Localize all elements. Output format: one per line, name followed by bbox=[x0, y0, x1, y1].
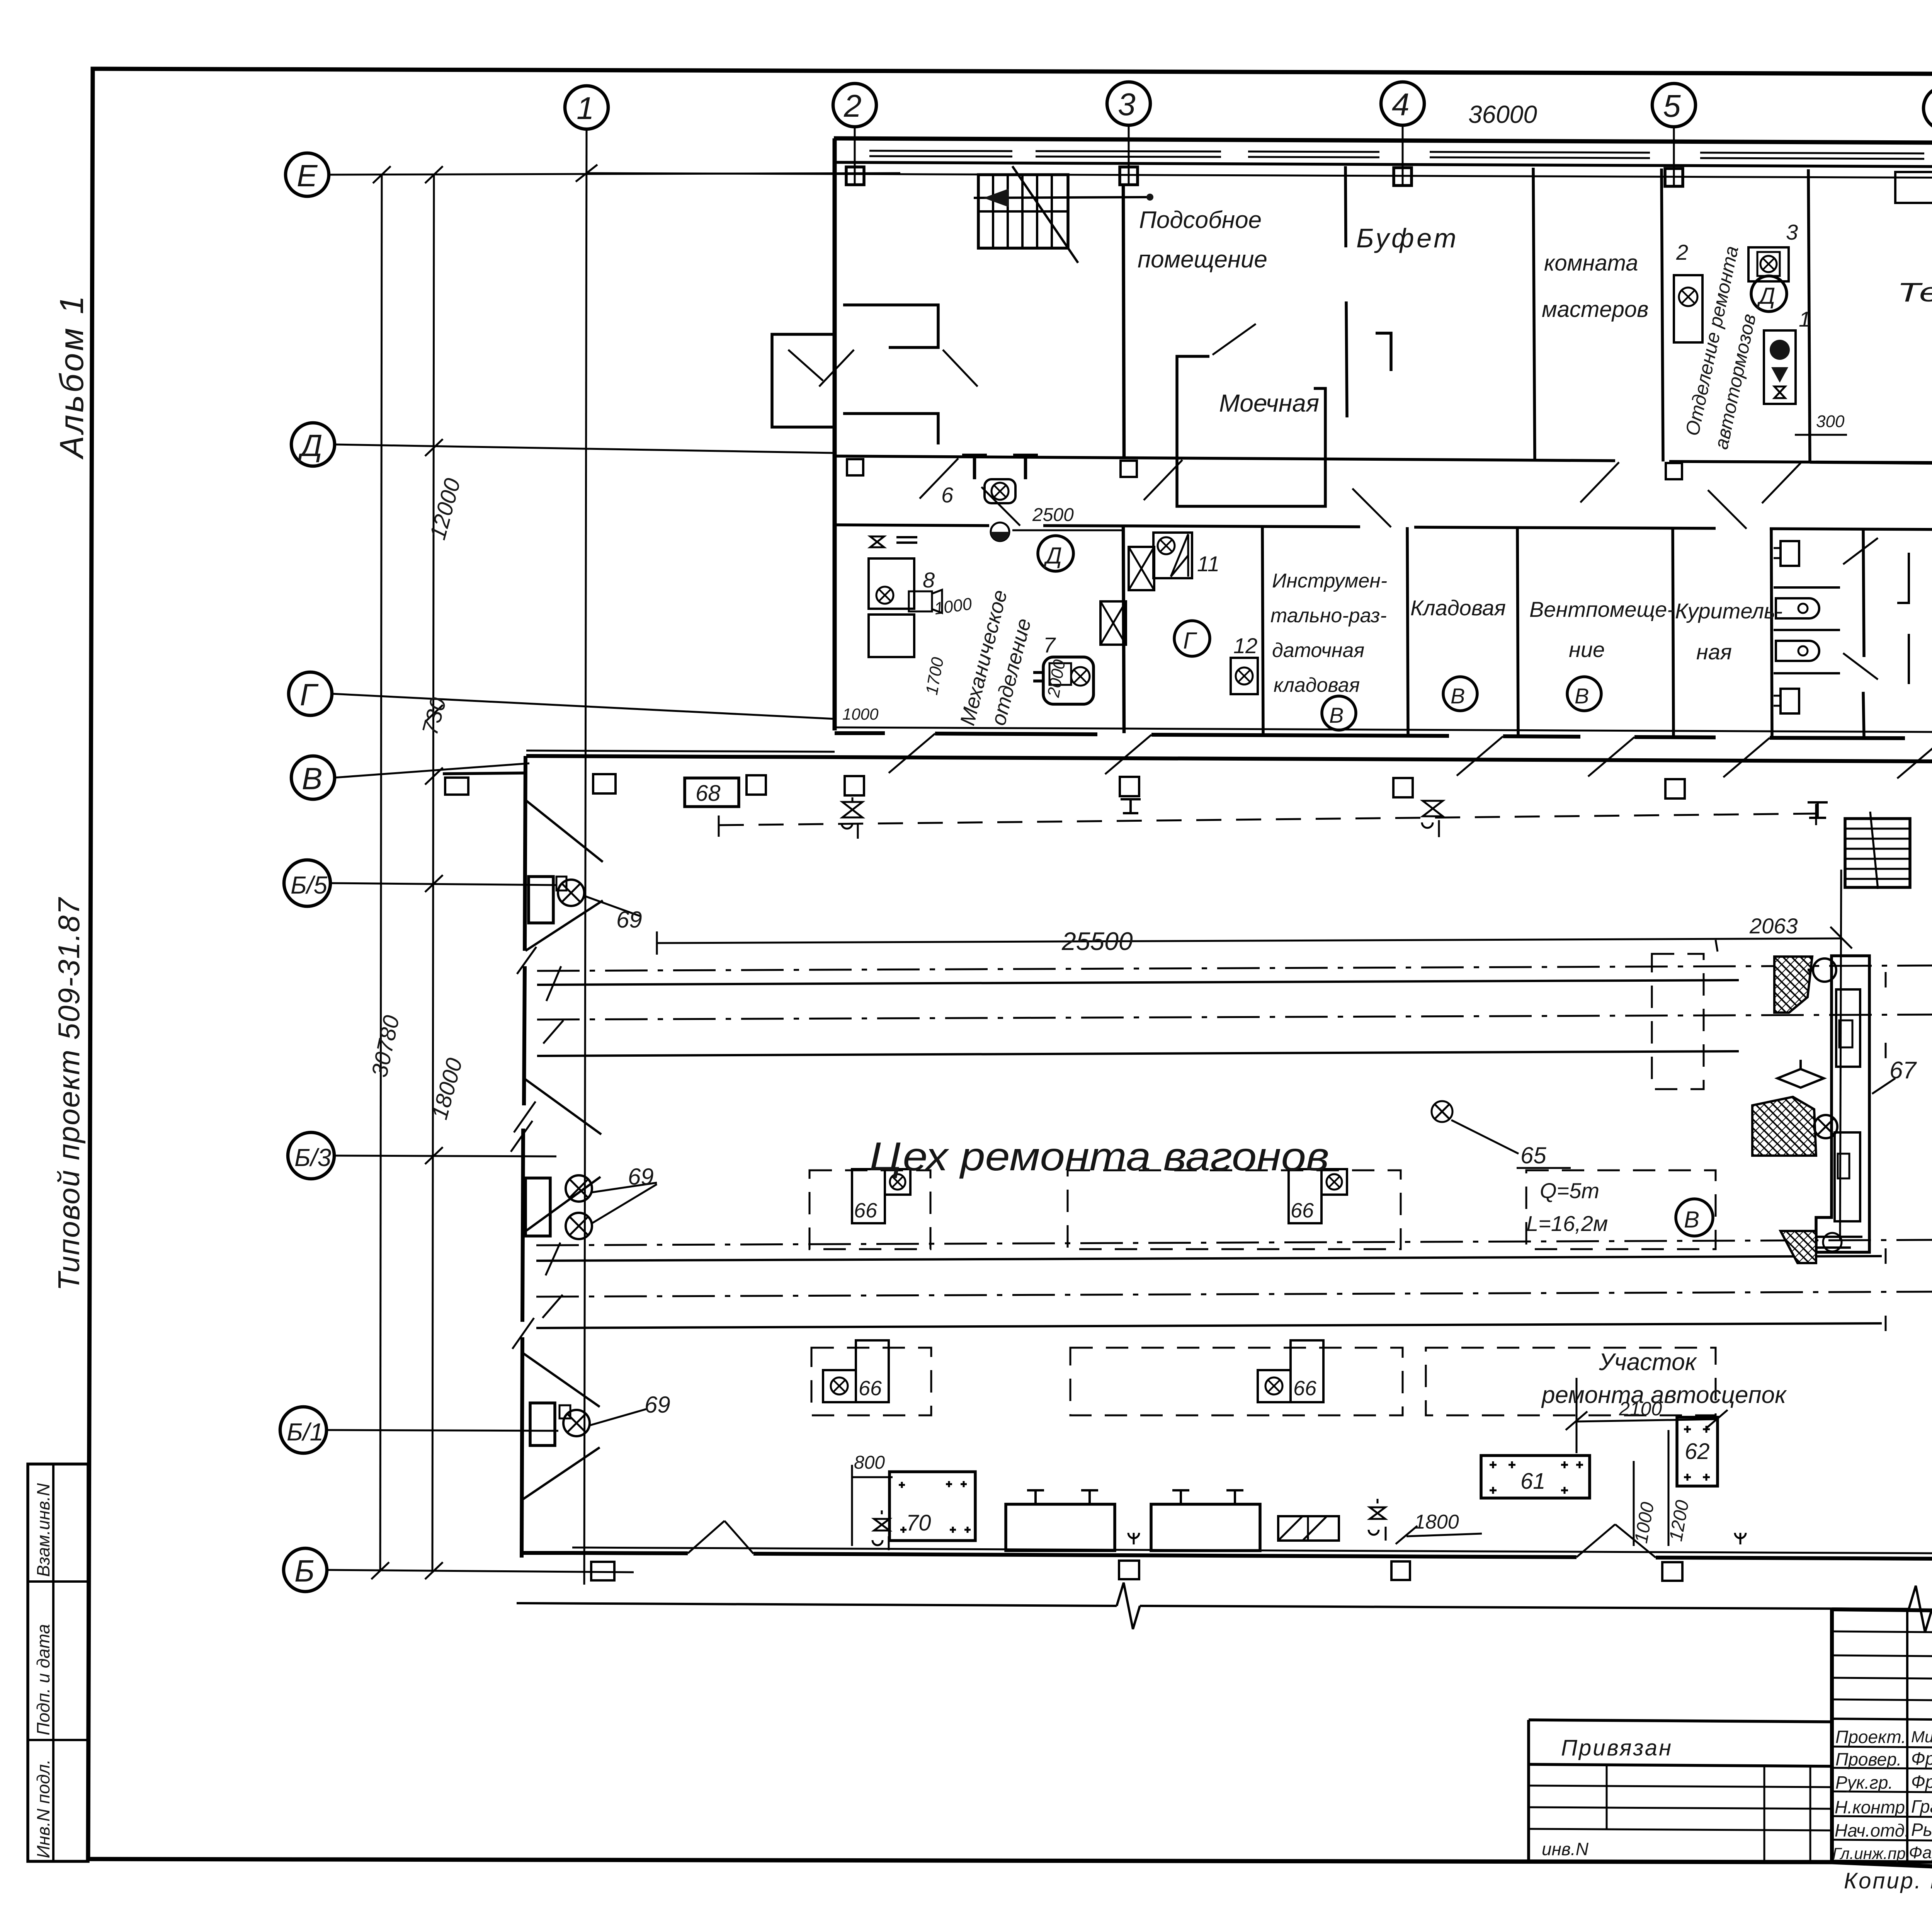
pillar under south wall x1560 bbox=[591, 1562, 614, 1580]
teplo bottom wall/right extension bbox=[1810, 462, 1932, 465]
crossed box in instr room bbox=[1129, 547, 1154, 590]
equipment 6 grinder bbox=[985, 479, 1015, 503]
left small col 1 bbox=[1906, 1610, 1908, 1862]
equipment 7 machine bbox=[1043, 657, 1094, 704]
track 2 centerline bbox=[536, 1292, 1932, 1297]
svg-text:ная: ная bbox=[1696, 640, 1732, 664]
machine 67 hatched blob bbox=[1752, 1097, 1816, 1156]
svg-text:Н.контр.: Н.контр. bbox=[1835, 1797, 1910, 1817]
wc stall walls bbox=[1774, 586, 1840, 589]
partition instr room right bbox=[1262, 527, 1263, 734]
vestibule lower walls bbox=[843, 414, 938, 444]
porch inner door diagonals bbox=[788, 350, 823, 381]
svg-text:Милославская: Милославская bbox=[1911, 1728, 1932, 1746]
equipment 8 cluster bbox=[869, 558, 914, 609]
track 2 left break bbox=[546, 1243, 560, 1275]
svg-text:7: 7 bbox=[1043, 633, 1056, 657]
bottom-left attachment table bbox=[1529, 1720, 1832, 1861]
vestibule wall horizontal bbox=[843, 305, 938, 347]
svg-text:Альбом 1: Альбом 1 bbox=[53, 293, 90, 460]
hall south wall segments bbox=[572, 1553, 688, 1553]
machine 67 pulley circle bbox=[1813, 958, 1836, 982]
dim verticals near 61 bbox=[1633, 1461, 1635, 1546]
pillar under south wall x3620 bbox=[1391, 1561, 1410, 1580]
valve pair x3560 bbox=[1370, 1499, 1385, 1519]
vestibule door swing lower bbox=[943, 350, 978, 386]
track 2 upper dashdot bbox=[536, 1240, 1932, 1245]
partition kuritelnaya/wc bbox=[1771, 528, 1772, 737]
pillar at axis 4 bbox=[1394, 168, 1412, 186]
svg-text:Б/5: Б/5 bbox=[291, 871, 327, 899]
column axis line 1 bbox=[584, 129, 587, 1585]
partition podsobnoe/bufet lower bbox=[1346, 301, 1347, 417]
svg-text:кладовая: кладовая bbox=[1274, 674, 1360, 696]
track 1 rail north bbox=[537, 980, 1739, 985]
privyazan row divider bbox=[1529, 1764, 1832, 1766]
equipment 1 bbox=[1764, 330, 1796, 404]
equipment 62 bbox=[1677, 1417, 1718, 1486]
svg-text:В: В bbox=[1451, 684, 1465, 708]
svg-text:В: В bbox=[1684, 1207, 1699, 1233]
svg-text:Куритель-: Куритель- bbox=[1675, 599, 1782, 623]
partition stairhall/podsobnoe bbox=[1123, 185, 1124, 458]
chain tick Б bbox=[425, 1562, 443, 1579]
axis circle 1 bbox=[565, 86, 608, 129]
left filing table divider row 1 bbox=[28, 1580, 88, 1583]
row axis line Б/1 bbox=[327, 1430, 558, 1431]
column axis line 3 bbox=[1128, 126, 1130, 186]
vestibule door swing upper bbox=[819, 350, 854, 386]
svg-text:тально-раз-: тально-раз- bbox=[1270, 604, 1387, 627]
svg-text:3: 3 bbox=[1118, 87, 1136, 122]
room marker Г bbox=[1174, 621, 1210, 656]
svg-text:Взам.инв.N: Взам.инв.N bbox=[33, 1483, 53, 1577]
moechnaya room walls bbox=[1177, 356, 1325, 506]
dimension line 25500 bbox=[657, 938, 1841, 943]
row axis circle В bbox=[291, 756, 335, 799]
svg-text:Д: Д bbox=[298, 428, 322, 463]
svg-text:Проект.: Проект. bbox=[1835, 1727, 1906, 1747]
svg-text:800: 800 bbox=[854, 1452, 885, 1473]
vertical thin line at 4765 bbox=[1840, 870, 1841, 1241]
equipment 66 row1 left bbox=[852, 1169, 885, 1223]
svg-text:69: 69 bbox=[616, 907, 642, 933]
half-dark circle symbol bbox=[991, 523, 1009, 541]
moechnaya door swing bbox=[1213, 324, 1256, 355]
svg-text:Д: Д bbox=[1043, 543, 1062, 569]
machine 67 inner bottom bbox=[1835, 1132, 1860, 1221]
vertical dimension chain outer bbox=[380, 175, 382, 1571]
valve symbol x4700 bbox=[1808, 802, 1828, 818]
svg-text:36000: 36000 bbox=[1468, 100, 1537, 128]
hall left funnel top bbox=[526, 800, 603, 862]
svg-text:Кладовая: Кладовая bbox=[1410, 596, 1506, 620]
svg-text:67: 67 bbox=[1889, 1057, 1917, 1084]
svg-text:Инструмен-: Инструмен- bbox=[1272, 570, 1387, 592]
inspection pit row1 segment c bbox=[1526, 1170, 1716, 1249]
svg-text:5: 5 bbox=[1663, 89, 1681, 124]
row axis circle Е bbox=[286, 153, 329, 196]
wall stub left of hall top bbox=[443, 773, 526, 774]
row axis line В bbox=[335, 763, 529, 778]
pillar at axis3 on Д wall bbox=[1121, 461, 1137, 477]
crane hook symbol 65 bbox=[1432, 1101, 1452, 1122]
svg-text:65: 65 bbox=[1520, 1142, 1546, 1168]
svg-text:1: 1 bbox=[1799, 307, 1811, 331]
svg-text:Фролов: Фролов bbox=[1911, 1748, 1932, 1769]
svg-text:Подп. и дата: Подп. и дата bbox=[33, 1624, 53, 1735]
svg-text:66: 66 bbox=[859, 1377, 882, 1400]
inspection pit row2 segment a bbox=[811, 1348, 931, 1415]
wc toilet 1 bbox=[1781, 541, 1799, 566]
door swings into corridor from rooms bbox=[920, 458, 958, 499]
svg-text:1800: 1800 bbox=[1414, 1511, 1459, 1533]
pillar under south wall x4330 bbox=[1662, 1562, 1682, 1581]
svg-text:Б/3: Б/3 bbox=[294, 1144, 331, 1171]
svg-text:даточная: даточная bbox=[1272, 639, 1364, 662]
svg-text:Q=5т: Q=5т bbox=[1540, 1178, 1599, 1203]
partition bufet/komnata bbox=[1533, 168, 1535, 460]
svg-text:Б: Б bbox=[294, 1554, 315, 1588]
room marker Д bbox=[1751, 276, 1787, 312]
room marker Д in mech bbox=[1038, 536, 1073, 571]
attachment grid columns bbox=[1606, 1764, 1608, 1830]
door swings from corridor down bbox=[981, 487, 1020, 526]
chain tick Д bbox=[425, 439, 443, 456]
room marker В instr bbox=[1322, 696, 1356, 730]
equipment 3 bbox=[1748, 247, 1789, 281]
corridor north wall (axis Д) bbox=[835, 456, 1615, 461]
equipment 61 bbox=[1481, 1456, 1590, 1498]
svg-text:Типовой проект 509-31.87: Типовой проект 509-31.87 bbox=[52, 897, 86, 1291]
partition kladovaya/vent bbox=[1517, 528, 1518, 735]
room marker В vent bbox=[1567, 677, 1601, 711]
chain tick E bbox=[425, 166, 443, 183]
svg-text:2063: 2063 bbox=[1749, 914, 1798, 938]
label 67 bbox=[1872, 1078, 1895, 1094]
svg-text:Инв.N подл.: Инв.N подл. bbox=[33, 1759, 53, 1858]
svg-text:12: 12 bbox=[1233, 633, 1257, 658]
svg-text:Тепловой пункт: Тепловой пункт bbox=[1897, 277, 1932, 307]
row axis circle Г bbox=[289, 672, 332, 715]
svg-text:3: 3 bbox=[1786, 220, 1798, 244]
chain tick Б3 bbox=[425, 1147, 443, 1164]
hall left funnel low bbox=[522, 1353, 600, 1407]
axis circle 5 bbox=[1652, 83, 1696, 127]
machine 67 outline bbox=[1816, 956, 1869, 1252]
column axis line 4 bbox=[1402, 126, 1404, 186]
row axis circle Б/5 bbox=[284, 860, 330, 906]
svg-text:68: 68 bbox=[696, 781, 721, 806]
row axis line Б bbox=[327, 1570, 634, 1572]
row axis circle Б bbox=[284, 1548, 327, 1592]
svg-text:69: 69 bbox=[645, 1392, 670, 1418]
room marker В kladovaya bbox=[1443, 677, 1477, 711]
partition podsobnoe/bufet upper bbox=[1345, 166, 1346, 247]
svg-text:ремонта автосцепок: ремонта автосцепок bbox=[1541, 1382, 1787, 1408]
svg-text:Д: Д bbox=[1757, 283, 1775, 309]
svg-text:25500: 25500 bbox=[1061, 927, 1133, 955]
axis Г wall: segments with door gaps bbox=[835, 731, 885, 735]
track 2 rail north bbox=[536, 1256, 1882, 1261]
inspection pit row2 segment c bbox=[1426, 1348, 1716, 1415]
svg-text:Привязан: Привязан bbox=[1561, 1735, 1673, 1760]
left table bottom edge bbox=[1832, 1861, 1932, 1864]
svg-text:62: 62 bbox=[1685, 1439, 1710, 1464]
svg-text:Фролов: Фролов bbox=[1911, 1772, 1932, 1792]
title block outer top edge bbox=[1832, 1609, 1932, 1618]
svg-text:Рук.гр.: Рук.гр. bbox=[1835, 1772, 1893, 1793]
svg-text:Г: Г bbox=[1183, 628, 1197, 654]
valve pair left of 70 bbox=[874, 1510, 889, 1531]
svg-text:66: 66 bbox=[1291, 1199, 1314, 1222]
partition kladovaya left bbox=[1407, 527, 1408, 735]
svg-text:Фартушный: Фартушный bbox=[1909, 1843, 1932, 1862]
equipment 68 bbox=[685, 778, 739, 807]
stand symbol between benches bbox=[1128, 1533, 1139, 1544]
svg-text:помещение: помещение bbox=[1138, 246, 1267, 273]
valve symbol below wall x2200 bbox=[842, 797, 862, 817]
equipment 11 bbox=[1153, 533, 1192, 578]
chain tick outer Б bbox=[371, 1562, 389, 1579]
machine 67 inner top bbox=[1836, 989, 1860, 1067]
title block left edge bbox=[1830, 1609, 1834, 1861]
track 1 rail south bbox=[537, 1051, 1739, 1056]
equipment rect in teplopunkt bbox=[1895, 172, 1932, 203]
equipment 2 bbox=[1674, 275, 1702, 342]
hall south door swing left bbox=[688, 1521, 724, 1553]
pillar at axis 3 bbox=[1120, 167, 1138, 185]
inspection pit row1 segment a bbox=[810, 1170, 930, 1249]
north inner wall bbox=[834, 162, 1932, 168]
hall north wall bbox=[526, 756, 1932, 761]
axis Г wall upper line bbox=[835, 727, 1932, 732]
svg-text:2500: 2500 bbox=[1032, 505, 1074, 525]
svg-text:Подсобное: Подсобное bbox=[1139, 207, 1262, 233]
partition mech/instrument corridor bbox=[1123, 526, 1124, 733]
svg-text:70: 70 bbox=[906, 1510, 931, 1536]
svg-text:ние: ние bbox=[1569, 637, 1605, 662]
wall stub right of moechnaya bbox=[1376, 333, 1391, 371]
svg-text:L=16,2м: L=16,2м bbox=[1526, 1211, 1608, 1236]
69 valve unit at Б/3 bbox=[526, 1178, 550, 1236]
small square left of 68 bbox=[593, 774, 616, 793]
svg-text:69: 69 bbox=[628, 1164, 654, 1190]
wc door swings bbox=[1843, 538, 1878, 564]
svg-text:300: 300 bbox=[1816, 412, 1845, 431]
workbench 2 bbox=[1151, 1504, 1260, 1551]
room marker В hall bbox=[1676, 1199, 1713, 1236]
row axis line Г bbox=[332, 694, 835, 719]
hatched box bottom bbox=[1278, 1516, 1339, 1541]
valve symbol x3705 bbox=[1423, 801, 1443, 816]
row axis circle Д bbox=[291, 423, 335, 466]
wc urinal 1 bbox=[1776, 598, 1819, 618]
svg-text:В: В bbox=[1329, 703, 1344, 727]
track 1 centerline bbox=[537, 1015, 1932, 1020]
svg-text:Градован: Градован bbox=[1911, 1796, 1932, 1817]
track 1 left break bbox=[546, 966, 561, 1001]
svg-text:Нач.отд.: Нач.отд. bbox=[1835, 1820, 1910, 1840]
svg-text:инв.N: инв.N bbox=[1542, 1839, 1589, 1859]
stairwell hall top right bbox=[1845, 812, 1910, 889]
left filing table divider vertical bbox=[52, 1464, 54, 1861]
pillar at axis 2 bbox=[846, 167, 864, 185]
equipment 66 row1 right bbox=[1289, 1169, 1321, 1223]
row axis line Д bbox=[335, 444, 835, 453]
machine 67 spindle bbox=[1777, 1069, 1824, 1088]
svg-text:4: 4 bbox=[1392, 87, 1410, 122]
top dimension line axis1-axis7 bbox=[587, 173, 1932, 179]
svg-text:Копир. Карась: Копир. Карась bbox=[1844, 1868, 1932, 1893]
machine 67 hatched top wedge bbox=[1774, 957, 1812, 1013]
outer apron line with breaks bbox=[517, 1603, 1117, 1606]
svg-text:комната: комната bbox=[1544, 250, 1638, 276]
attachment grid rows bbox=[1529, 1786, 1832, 1787]
equipment 12 bbox=[1231, 658, 1258, 694]
svg-text:мастеров: мастеров bbox=[1542, 297, 1648, 322]
left rows top area bbox=[1832, 1631, 1932, 1634]
wc lobby partition bbox=[1897, 553, 1909, 603]
pillar at axis2 on Д wall bbox=[847, 459, 863, 475]
axis circle 4 bbox=[1381, 82, 1424, 125]
svg-text:66: 66 bbox=[1293, 1377, 1317, 1400]
axis circle 2 bbox=[833, 83, 876, 127]
wc urinal 2 bbox=[1776, 641, 1819, 661]
track 1 upper dashdot bbox=[537, 965, 1932, 971]
svg-text:В: В bbox=[302, 761, 322, 796]
wc right partition bbox=[1863, 529, 1864, 657]
bottom equipment 70 bbox=[889, 1472, 975, 1541]
69 valve unit at Б/1 bbox=[530, 1403, 555, 1445]
transfer pit vertical bbox=[1652, 954, 1704, 1089]
svg-text:Участок: Участок bbox=[1599, 1349, 1697, 1376]
column axis line 5 bbox=[1673, 128, 1675, 186]
row axis line Б/3 bbox=[334, 1156, 556, 1156]
hall west wall bottom corner bbox=[522, 1551, 572, 1555]
svg-text:Вентпомеще-: Вентпомеще- bbox=[1529, 597, 1674, 621]
svg-text:В: В bbox=[1575, 684, 1589, 708]
svg-text:Цех ремонта вагонов: Цех ремонта вагонов bbox=[869, 1134, 1329, 1179]
partition avtotormoza right bbox=[1808, 169, 1810, 462]
svg-text:Моечная: Моечная bbox=[1219, 389, 1319, 417]
partition komnata/avtotormoza bbox=[1662, 169, 1663, 461]
chain tick Б5 bbox=[425, 875, 443, 892]
axis circle 6 bbox=[1923, 87, 1932, 130]
svg-text:11: 11 bbox=[1197, 552, 1219, 576]
row axis circle Б/1 bbox=[280, 1407, 327, 1453]
porch outline bbox=[772, 334, 835, 427]
hall south door swing right bbox=[1577, 1524, 1615, 1557]
axis circle 3 bbox=[1107, 82, 1150, 125]
svg-text:8: 8 bbox=[923, 568, 935, 592]
stand symbol x4500 bbox=[1735, 1533, 1746, 1544]
pillar squares under hall north wall bbox=[747, 775, 766, 795]
pillar at axis 5 bbox=[1665, 169, 1683, 186]
door swings below Г wall bbox=[889, 734, 935, 773]
svg-text:Б/1: Б/1 bbox=[287, 1418, 323, 1446]
left filing table divider row 2 bbox=[28, 1739, 88, 1741]
svg-text:61: 61 bbox=[1520, 1469, 1546, 1494]
svg-text:2: 2 bbox=[844, 89, 862, 124]
svg-text:Г: Г bbox=[300, 678, 319, 712]
window strip lines bbox=[869, 151, 1932, 160]
row axis line Е bbox=[329, 173, 900, 175]
partition vent/kuritelnaya bbox=[1673, 528, 1673, 736]
equipment 66 row2 left bbox=[856, 1340, 889, 1402]
svg-text:Е: Е bbox=[297, 158, 318, 193]
equipment 66 row2 right bbox=[1291, 1340, 1323, 1402]
hall left funnel mid bbox=[524, 1078, 601, 1134]
pillar under south wall x2920 bbox=[1119, 1561, 1139, 1579]
svg-text:2100: 2100 bbox=[1619, 1398, 1662, 1420]
equipment 6 tees bbox=[962, 455, 987, 479]
signature rows bbox=[1832, 1747, 1932, 1749]
svg-text:Гл.инж.пр.: Гл.инж.пр. bbox=[1832, 1844, 1910, 1863]
inspection pit row1 segment b bbox=[1068, 1170, 1401, 1249]
pillar at axis5 on Д wall bbox=[1666, 463, 1682, 479]
rail end ticks bbox=[1885, 972, 1887, 987]
vertical dimension chain inner bbox=[432, 175, 434, 1571]
svg-text:6: 6 bbox=[941, 483, 954, 507]
svg-text:1000: 1000 bbox=[842, 705, 879, 723]
chain tick outer E bbox=[373, 166, 391, 183]
long dashed line across hall bbox=[719, 814, 1816, 825]
svg-text:66: 66 bbox=[854, 1199, 878, 1222]
svg-text:Буфет: Буфет bbox=[1356, 223, 1459, 253]
workbench 1 bbox=[1006, 1504, 1115, 1551]
chain tick В bbox=[425, 768, 443, 785]
svg-text:2: 2 bbox=[1676, 240, 1688, 264]
machine 67 lower hatch foot bbox=[1781, 1231, 1816, 1263]
hall west wall segments with breaks bbox=[525, 756, 526, 951]
left filing table frame bbox=[28, 1464, 88, 1861]
svg-text:Рыяка: Рыяка bbox=[1911, 1820, 1932, 1840]
chain tick Г bbox=[425, 705, 443, 722]
row axis line Б/5 bbox=[330, 883, 556, 885]
west wall of top block bbox=[833, 138, 837, 730]
row axis circle Б/3 bbox=[288, 1132, 334, 1179]
69 valve unit at Б/5 bbox=[529, 877, 553, 923]
column axis line 2 bbox=[854, 128, 856, 186]
stand symbol x2925 bbox=[1121, 799, 1141, 813]
stair top-left bbox=[974, 166, 1153, 263]
corridor south wall bbox=[835, 525, 989, 526]
svg-text:Провер.: Провер. bbox=[1835, 1749, 1901, 1769]
track 2 rail south bbox=[536, 1323, 1882, 1328]
crossed box 2 bbox=[1100, 601, 1126, 645]
north outer wall bbox=[834, 138, 1932, 144]
inspection pit row2 segment b bbox=[1070, 1348, 1403, 1415]
valve above 8 bbox=[870, 536, 884, 547]
svg-text:1: 1 bbox=[577, 91, 594, 126]
wc toilet 2 bbox=[1781, 689, 1799, 713]
